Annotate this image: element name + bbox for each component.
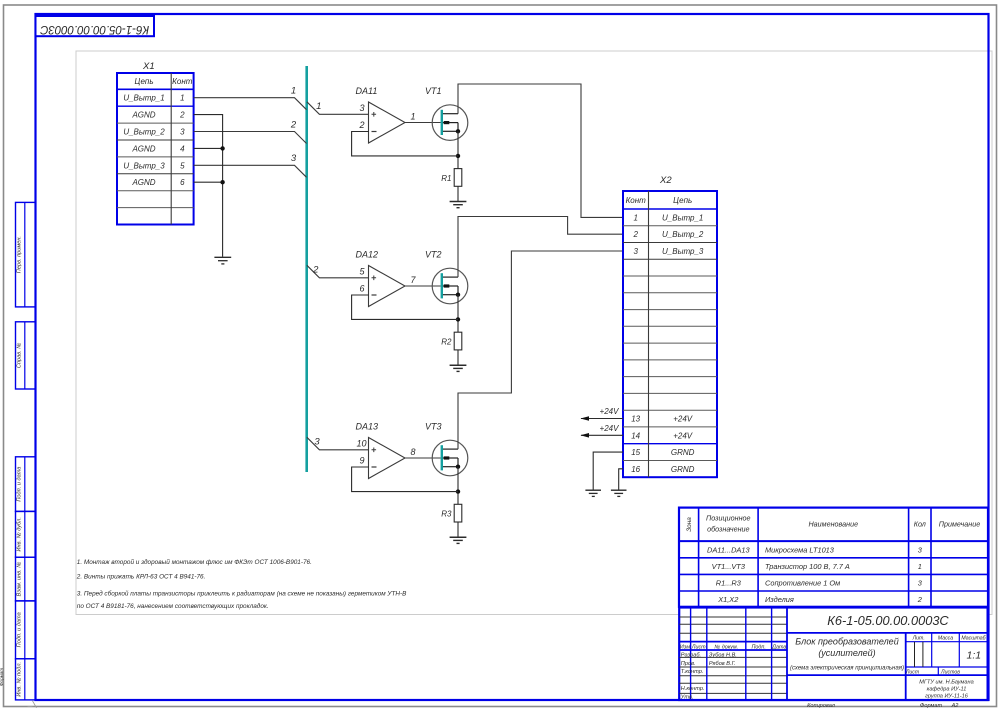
svg-text:8: 8 (411, 447, 416, 457)
svg-text:3: 3 (359, 103, 364, 113)
left margin box Перв. примен. (16, 202, 36, 307)
wire VT3 drain to X2 pin3 (458, 251, 623, 449)
svg-text:+24V: +24V (673, 431, 693, 440)
svg-text:1: 1 (918, 562, 922, 571)
wire R3 to ground (457, 522, 459, 537)
ground (X2 pin16) (611, 490, 627, 496)
svg-text:2: 2 (358, 120, 364, 130)
svg-text:VT1: VT1 (425, 86, 442, 96)
svg-text:Лист: Лист (691, 644, 706, 650)
svg-text:DA11...DA13: DA11...DA13 (707, 545, 750, 554)
svg-text:Примечание: Примечание (939, 520, 980, 529)
svg-text:К6-1-05.00.00.0003С: К6-1-05.00.00.0003С (827, 613, 949, 628)
svg-text:5: 5 (359, 266, 365, 276)
wire bus to DA11 +input, line 1 (307, 101, 369, 114)
svg-text:кафедра ИУ-11: кафедра ИУ-11 (927, 687, 967, 693)
svg-text:Т.контр.: Т.контр. (681, 669, 704, 675)
svg-text:Листов: Листов (940, 669, 960, 675)
svg-text:U_Вытр_3: U_Вытр_3 (662, 247, 704, 256)
svg-text:3: 3 (633, 247, 638, 256)
svg-text:Зона: Зона (686, 517, 693, 532)
parts list table (перечень элементов) (679, 508, 988, 607)
svg-text:3: 3 (314, 437, 320, 448)
svg-text:Цепь: Цепь (134, 77, 153, 86)
svg-text:7: 7 (411, 275, 417, 285)
wire VT1 feedback to DA11 -input (352, 132, 458, 156)
svg-text:Микросхема LT1013: Микросхема LT1013 (765, 545, 835, 554)
left margin box Инв. № дубл. (16, 511, 36, 557)
svg-text:Пров.: Пров. (681, 661, 696, 667)
svg-text:Рябов В.Г.: Рябов В.Г. (709, 661, 736, 667)
svg-text:+24V: +24V (673, 415, 693, 424)
svg-text:(усилителей): (усилителей) (818, 648, 875, 658)
svg-text:10: 10 (356, 438, 366, 448)
svg-text:R2: R2 (441, 338, 452, 347)
resistor R1 (441, 169, 462, 187)
svg-text:Сопротивление 1 Ом: Сопротивление 1 Ом (765, 579, 840, 588)
svg-text:R1: R1 (441, 174, 451, 183)
svg-text:6: 6 (359, 283, 364, 293)
svg-text:Масштаб: Масштаб (961, 636, 986, 642)
svg-text:обозначение: обозначение (707, 525, 749, 534)
wire VT1 drain to X2 pin1 (458, 84, 623, 217)
op-amp DA11 (356, 86, 416, 143)
svg-text:Формат: Формат (0, 668, 4, 686)
power +24V arrow to X2 pin13 (580, 407, 623, 421)
svg-text:Конт: Конт (626, 196, 647, 205)
wire VT2 feedback to DA12 -input (352, 295, 458, 319)
wire VT1 source to R1 (457, 131, 459, 168)
left margin box Взам. инв. № (16, 557, 36, 601)
wire X1 pin3 to bus, group line 2 (194, 119, 307, 143)
svg-text:1: 1 (180, 94, 184, 103)
svg-text:+24V: +24V (600, 424, 620, 433)
svg-text:Блок преобразователей: Блок преобразователей (795, 637, 898, 647)
svg-text:X2: X2 (659, 175, 672, 186)
svg-text:2: 2 (290, 119, 297, 130)
wire X1 pin5 to bus, group line 3 (194, 153, 307, 177)
svg-text:МГТУ им. Н.Баумана: МГТУ им. Н.Баумана (919, 680, 973, 686)
svg-text:DA12: DA12 (356, 250, 379, 260)
svg-text:Кол: Кол (914, 520, 926, 529)
ground (R3) (450, 537, 467, 543)
svg-text:К6-1-05.00.00.0003С: К6-1-05.00.00.0003С (39, 23, 149, 35)
svg-text:R1...R3: R1...R3 (716, 579, 742, 588)
node: AGND junction pin4 (220, 146, 224, 150)
wire VT2 drain to X2 pin2 (458, 217, 623, 278)
ground (R2) (450, 365, 467, 371)
svg-text:(схема электрическая принципиа: (схема электрическая принципиальная) (790, 664, 904, 671)
svg-text:U_Вытр_3: U_Вытр_3 (123, 161, 165, 170)
svg-text:1: 1 (291, 86, 296, 97)
svg-text:GRND: GRND (671, 465, 695, 474)
svg-text:2. Винты прижать КРЛ-63 ОСТ 4: 2. Винты прижать КРЛ-63 ОСТ 4 В941-76. (76, 574, 206, 581)
left margin box Подп. и дата (lower) (16, 601, 36, 659)
wire DA13 output to VT3 gate (405, 457, 441, 459)
svg-text:U_Вытр_2: U_Вытр_2 (662, 230, 704, 239)
svg-text:6: 6 (180, 178, 185, 187)
wire X2 pin16 to ground (619, 469, 623, 490)
svg-text:DA13: DA13 (356, 422, 379, 432)
wire VT2 source to R2 (457, 295, 459, 333)
svg-text:R3: R3 (441, 510, 452, 519)
power +24V arrow to X2 pin14 (580, 424, 623, 438)
node: VT3 source junction (456, 489, 460, 493)
svg-text:AGND: AGND (131, 144, 155, 153)
svg-text:1: 1 (411, 111, 416, 121)
svg-text:AGND: AGND (131, 111, 155, 120)
svg-text:по ОСТ 4 В9181-76, нанесением: по ОСТ 4 В9181-76, нанесением соответств… (77, 602, 269, 610)
svg-text:GRND: GRND (671, 448, 695, 457)
svg-text:2: 2 (179, 111, 185, 120)
svg-text:1: 1 (633, 213, 637, 222)
svg-text:Перв. примен.: Перв. примен. (17, 236, 23, 273)
wire VT3 feedback to DA13 -input (352, 467, 458, 492)
svg-text:Конт: Конт (172, 77, 193, 86)
svg-text:13: 13 (631, 415, 640, 424)
wire R2 to ground (457, 350, 459, 365)
svg-text:Наименование: Наименование (808, 520, 858, 529)
wire X1 AGND pins 2,4,6 common (194, 115, 223, 257)
svg-text:Зубов Н.В.: Зубов Н.В. (709, 652, 737, 658)
svg-text:А2: А2 (951, 703, 960, 709)
wire DA12 output to VT2 gate (405, 285, 441, 287)
wire VT3 source to R3 (457, 467, 459, 505)
wire DA11 output to VT1 gate (405, 122, 441, 124)
svg-text:Подп. и дата: Подп. и дата (17, 467, 23, 502)
svg-text:Цепь: Цепь (673, 196, 692, 205)
ground (R1) (450, 202, 467, 208)
title block (основная надпись) (679, 608, 987, 701)
svg-text:1: 1 (316, 101, 321, 112)
transistor VT1 (MOSFET) (425, 86, 468, 140)
svg-text:Подп.: Подп. (752, 644, 766, 650)
svg-text:Лит.: Лит. (912, 636, 925, 642)
ground (X2 pin15) (585, 490, 601, 496)
svg-text:4: 4 (180, 144, 185, 153)
svg-text:AGND: AGND (131, 178, 155, 187)
wire bus to DA13 +input, line 3 (307, 437, 369, 450)
svg-text:U_Вытр_1: U_Вытр_1 (662, 213, 703, 222)
wire X1 pin1 to bus, group line 1 (194, 86, 307, 110)
svg-text:Утв.: Утв. (680, 695, 694, 701)
svg-text:1. Монтаж второй и здоровый мо: 1. Монтаж второй и здоровый монтажом флю… (77, 558, 312, 566)
svg-text:2: 2 (312, 265, 319, 276)
node: AGND junction pin6 (220, 180, 224, 184)
svg-text:3: 3 (180, 128, 185, 137)
svg-text:15: 15 (631, 448, 640, 457)
top-left inverted document number stamp (36, 16, 155, 36)
op-amp DA13 (356, 422, 416, 479)
svg-text:Изм: Изм (680, 644, 690, 650)
node: VT2 source junction (456, 317, 460, 321)
svg-text:Транзистор 100 В, 7.7 А: Транзистор 100 В, 7.7 А (765, 562, 850, 571)
svg-text:1:1: 1:1 (966, 650, 981, 662)
ground (X1 AGND) (214, 257, 231, 264)
drawing content area light border (76, 51, 992, 615)
svg-text:Справ. №: Справ. № (17, 343, 23, 368)
svg-text:Лист: Лист (905, 669, 920, 675)
svg-text:9: 9 (359, 455, 364, 465)
svg-text:VT3: VT3 (425, 422, 442, 432)
svg-text:3. Перед сборкой платы транзис: 3. Перед сборкой платы транзисторы прикл… (77, 590, 407, 598)
svg-text:VT1...VT3: VT1...VT3 (712, 562, 746, 571)
svg-text:14: 14 (631, 431, 640, 440)
svg-text:Разраб.: Разраб. (681, 652, 701, 658)
svg-text:DA11: DA11 (356, 86, 378, 96)
svg-text:5: 5 (180, 161, 185, 170)
svg-text:U_Вытр_1: U_Вытр_1 (123, 94, 164, 103)
svg-text:Дата: Дата (771, 644, 786, 650)
wire R1 to ground (457, 186, 459, 201)
svg-text:Изделия: Изделия (765, 595, 794, 604)
left margin box Инв. № подл. (16, 659, 36, 700)
connector X2 (623, 175, 717, 477)
wire bus to DA12 +input, line 2 (307, 265, 369, 278)
svg-text:группа ИУ-11-16: группа ИУ-11-16 (925, 694, 969, 700)
svg-text:Копировал: Копировал (807, 703, 836, 709)
svg-text:Н.контр.: Н.контр. (681, 686, 705, 692)
svg-text:X1,X2: X1,X2 (717, 595, 738, 604)
notes text (76, 558, 407, 610)
svg-text:Масса: Масса (938, 636, 953, 642)
transistor VT3 (MOSFET) (425, 422, 468, 476)
svg-text:№ докум.: № докум. (714, 644, 738, 650)
wire X2 pin15 to ground (593, 452, 623, 490)
corner cut mark bottom-left (0, 668, 37, 708)
bus (group link line) (305, 66, 308, 472)
text Копировал / Формат below frame (807, 703, 959, 709)
svg-text:Позиционное: Позиционное (706, 514, 750, 523)
svg-text:3: 3 (291, 153, 297, 164)
svg-text:16: 16 (631, 465, 640, 474)
svg-text:Инв. № дубл.: Инв. № дубл. (17, 517, 23, 551)
svg-text:+24V: +24V (600, 407, 620, 416)
left margin box Справ. № (16, 322, 36, 389)
svg-text:VT2: VT2 (425, 250, 442, 260)
svg-text:Инв. № подл.: Инв. № подл. (17, 662, 23, 697)
op-amp DA12 (356, 250, 417, 307)
svg-text:U_Вытр_2: U_Вытр_2 (123, 128, 165, 137)
resistor R3 (441, 504, 462, 522)
node: VT1 source junction (456, 154, 460, 158)
left margin box Подп. и дата (upper) (16, 457, 36, 512)
transistor VT2 (MOSFET) (425, 250, 468, 304)
resistor R2 (441, 332, 462, 350)
svg-text:2: 2 (632, 230, 638, 239)
svg-text:Взам. инв. №: Взам. инв. № (17, 562, 23, 597)
connector X1 (117, 61, 194, 225)
svg-text:2: 2 (917, 595, 922, 604)
svg-text:Подп. и дата: Подп. и дата (17, 612, 23, 647)
svg-text:X1: X1 (142, 61, 155, 72)
svg-text:Формат: Формат (920, 703, 943, 709)
